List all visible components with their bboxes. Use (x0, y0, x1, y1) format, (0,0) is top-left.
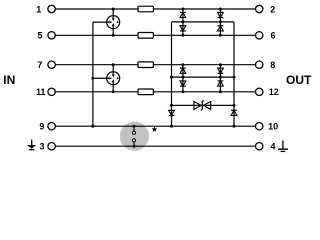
svg-text:9: 9 (39, 122, 44, 132)
svg-text:1: 1 (36, 4, 41, 14)
svg-text:8: 8 (270, 60, 275, 70)
svg-text:5: 5 (37, 31, 42, 41)
svg-text:11: 11 (36, 87, 46, 97)
svg-text:12: 12 (269, 87, 279, 97)
svg-text:IN: IN (3, 73, 15, 87)
svg-text:OUT: OUT (286, 73, 312, 87)
svg-text:3: 3 (39, 142, 44, 152)
svg-text:6: 6 (270, 31, 275, 41)
svg-text:7: 7 (37, 60, 42, 70)
svg-text:2: 2 (270, 4, 275, 14)
svg-text:10: 10 (268, 122, 278, 132)
svg-text:4: 4 (270, 142, 275, 152)
